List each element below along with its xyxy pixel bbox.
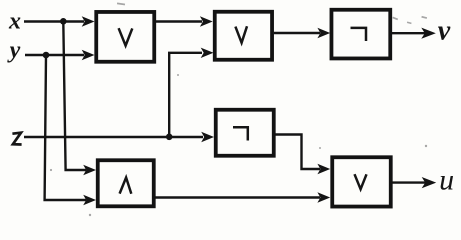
svg-text:x: x <box>8 9 21 35</box>
svg-text:y: y <box>7 38 21 64</box>
svg-text:v: v <box>438 15 451 46</box>
svg-text:u: u <box>439 163 454 196</box>
